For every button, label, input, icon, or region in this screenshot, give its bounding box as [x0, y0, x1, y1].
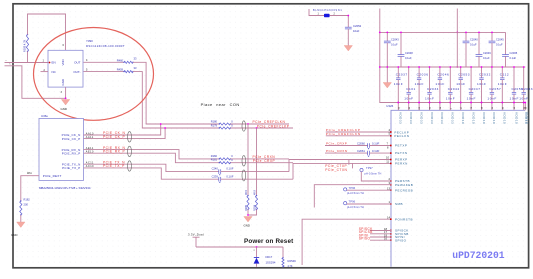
wire R459 down to CK_P node: [133, 72, 165, 128]
svg-text:SPISO: SPISO: [359, 237, 371, 241]
U326 power pin VDD column 14: [524, 102, 529, 125]
svg-text:PCIE_RX_P: PCIE_RX_P: [62, 151, 81, 155]
svg-text:C2053: C2053: [458, 73, 470, 77]
oscillator pin texts: [52, 59, 81, 85]
capacitor C2047 10nF: [467, 66, 481, 103]
svg-text:10nF: 10nF: [467, 97, 476, 101]
capacitor C2043 0.1uF: [384, 32, 399, 68]
resistor R184 49.9: [253, 190, 257, 211]
wire CTXN step to PERXP: [289, 160, 392, 172]
svg-text:3.3V_Dual: 3.3V_Dual: [188, 233, 204, 237]
svg-text:C2037: C2037: [396, 73, 408, 77]
net label PCIe_CRXP right: [326, 141, 347, 145]
svg-text:D017: D017: [266, 255, 273, 259]
svg-text:Y390: Y390: [86, 39, 93, 43]
capacitor C2049 0.1uF: [476, 32, 492, 68]
wire terminations join: [248, 210, 257, 216]
svg-text:Place near CON: Place near CON: [201, 102, 240, 107]
junction dot CREFCLKN termination: [247, 123, 249, 125]
svg-text:C2044: C2044: [448, 87, 460, 91]
wire C239 right: [221, 178, 293, 180]
diff pair marker CK: [128, 132, 132, 142]
svg-text:pH-0.5mm TH: pH-0.5mm TH: [347, 205, 364, 209]
U36u part number text: [39, 186, 91, 190]
svg-text:R185: R185: [245, 204, 248, 211]
svg-text:VDD: VDD: [61, 59, 65, 65]
net label SPISI: [359, 233, 369, 237]
svg-text:C2049: C2049: [483, 51, 491, 55]
ground symbol C2052: [344, 46, 352, 52]
net stub 2 to GND: [5, 63, 66, 99]
svg-text:U36u: U36u: [41, 114, 48, 118]
part name uPD720201: [452, 250, 505, 261]
capacitor C2046 10nF: [435, 66, 449, 103]
svg-text:10nF: 10nF: [510, 97, 519, 101]
wire CK_N node to R180: [161, 123, 220, 125]
svg-text:VDD10: VDD10: [503, 112, 507, 124]
capacitor C2059 10nF: [510, 66, 524, 103]
U36u pin names: [43, 133, 81, 178]
svg-text:SMB: SMB: [395, 202, 403, 206]
capacitor C2053 10nF: [456, 66, 470, 103]
svg-text:VDD10: VDD10: [492, 112, 496, 124]
svg-text:C2035: C2035: [510, 51, 518, 55]
wire ferrite input stub: [309, 9, 324, 16]
svg-text:VDD33: VDD33: [440, 112, 444, 124]
U326 power pin VDD column 2: [408, 102, 413, 125]
capacitor C239 0.1UF: [212, 174, 234, 183]
svg-text:10nF: 10nF: [487, 97, 496, 101]
svg-text:U326: U326: [386, 104, 393, 108]
svg-text:0.1uF: 0.1uF: [391, 42, 398, 46]
svg-text:PCIe_CREFCLKP: PCIe_CREFCLKP: [257, 124, 290, 128]
svg-text:PCIE_REXT: PCIE_REXT: [43, 174, 62, 178]
svg-text:GND: GND: [11, 233, 17, 237]
capacitor C2060 0.1UF series: [357, 141, 389, 149]
svg-text:10: 10: [386, 156, 389, 160]
wire PCIe_CREFCLKP to PECLKP: [326, 131, 392, 133]
svg-text:R184: R184: [253, 204, 256, 211]
net label PCIe_CRXP mid: [253, 159, 276, 163]
wire POR rail: [196, 246, 283, 248]
U326 power pin VDD column 9: [481, 102, 486, 125]
capacitor C2035 0.1uF: [502, 32, 518, 67]
ground symbol rail B: [383, 83, 391, 89]
net label PCIe_CREFCLKP mid: [257, 124, 290, 128]
svg-text:SPISO: SPISO: [395, 238, 407, 242]
IC U36u box: [39, 114, 84, 181]
IC U326 box outline: [386, 104, 525, 267]
wire CTXP step to PERXN: [293, 163, 392, 179]
svg-text:R162: R162: [24, 198, 31, 202]
wire R183 top to VDD: [28, 14, 66, 50]
EN pin red dot: [49, 62, 51, 64]
capacitor C2036 10nF: [415, 66, 429, 103]
svg-text:PCIE_TX_P: PCIE_TX_P: [62, 166, 80, 170]
power rail 3.3V_Dual: [188, 233, 204, 248]
wire PCIe_CRXP to C2060: [325, 145, 368, 147]
resistor R459 33: [117, 66, 137, 73]
svg-text:10nF: 10nF: [394, 82, 403, 86]
svg-text:DSC1124C08-100.0000T: DSC1124C08-100.0000T: [86, 44, 125, 48]
svg-text:10uF: 10uF: [353, 29, 360, 33]
diff pair marker CREFCLK: [242, 121, 246, 131]
oscillator pin numbers: [43, 44, 89, 94]
diff pair marker CTX: [242, 170, 246, 181]
net label PCIe_CTXP right: [325, 164, 347, 168]
svg-text:0.1uF: 0.1uF: [405, 56, 412, 60]
wire TP96 to PECREGB: [347, 189, 392, 191]
capacitor C2061 0.1UF series: [357, 147, 389, 157]
svg-text:VDD33: VDD33: [399, 112, 403, 124]
NC pin stub: [41, 71, 49, 73]
net label PCIE_TX_N: [103, 160, 125, 164]
wire CK_P node to R179: [165, 127, 219, 129]
U326 left pin numbers: [384, 128, 391, 241]
svg-text:PCIe_CRXP: PCIe_CRXP: [253, 159, 276, 163]
capacitor C2034 10nF: [425, 66, 439, 103]
svg-text:VDD33: VDD33: [409, 112, 413, 124]
svg-text:C2045: C2045: [496, 37, 504, 41]
svg-text:C2057: C2057: [489, 87, 501, 91]
svg-text:VDD10: VDD10: [471, 112, 475, 124]
svg-text:13: 13: [387, 186, 390, 190]
wire ferrite to C2052: [330, 16, 349, 28]
wire POR to R2549: [282, 247, 284, 258]
U326 power pin VDD column 10: [491, 102, 496, 125]
wire TP96 to SMB: [347, 203, 392, 205]
svg-text:VDD33: VDD33: [451, 112, 455, 124]
svg-text:14: 14: [387, 215, 390, 219]
svg-text:0.1UF: 0.1UF: [226, 167, 233, 171]
ferrite bead BLM41PG600SN1: [313, 9, 342, 17]
net label SPISCK: [359, 227, 373, 231]
junction GND node: [65, 97, 67, 99]
svg-text:49.9: 49.9: [245, 190, 248, 195]
svg-text:PONRSTB: PONRSTB: [395, 217, 413, 221]
net label PCIe_CRXN mid: [253, 155, 276, 159]
net label PCIe_CRXN right: [326, 149, 347, 153]
wire PCIE_CK_P pair: [84, 128, 166, 139]
svg-text:R181: R181: [211, 158, 218, 162]
U326 power pin VDD column 5: [439, 102, 444, 125]
svg-text:PERXN: PERXN: [395, 162, 408, 166]
svg-text:TP97: TP97: [366, 166, 373, 170]
capacitor C2044 10nF: [446, 66, 460, 103]
resistor R180 0: [211, 119, 233, 125]
svg-text:PECREGB: PECREGB: [395, 188, 413, 192]
svg-text:C2033: C2033: [521, 87, 533, 91]
junction dot rail right: [456, 32, 458, 68]
svg-text:R460: R460: [117, 58, 124, 62]
svg-text:4.7K: 4.7K: [288, 265, 293, 268]
svg-text:PECLKN: PECLKN: [394, 134, 409, 138]
svg-text:OUT: OUT: [74, 61, 81, 65]
svg-text:GND: GND: [61, 107, 67, 111]
junction dot CK_P: [164, 127, 166, 129]
resistor R185 49.9: [245, 190, 249, 211]
wire C240 right: [221, 171, 289, 173]
svg-text:PCIE_CK_P: PCIE_CK_P: [62, 137, 81, 141]
capacitor C2032 10nF: [477, 66, 491, 103]
wire TP97 to PERSTB: [361, 172, 391, 181]
svg-text:VDD10: VDD10: [514, 112, 518, 124]
svg-text:C239: C239: [212, 174, 219, 178]
svg-text:C2048: C2048: [405, 51, 413, 55]
title Power on Reset: [244, 238, 294, 245]
wire SPISI: [370, 236, 392, 238]
svg-text:0.1uF: 0.1uF: [510, 56, 517, 60]
svg-text:10nF: 10nF: [498, 82, 507, 86]
resistor R181 0: [211, 158, 233, 164]
U326 power pin VDD column 6: [449, 102, 454, 125]
junction dot CK_N: [160, 123, 162, 125]
svg-text:TP96: TP96: [349, 186, 356, 190]
svg-text:10nF: 10nF: [477, 82, 486, 86]
svg-text:C2034: C2034: [427, 87, 439, 91]
svg-text:PETXN: PETXN: [395, 151, 408, 155]
svg-text:C2052: C2052: [353, 24, 362, 28]
wire PCIE_TX_P pair: [84, 168, 219, 179]
junction dot CREFCLKP termination: [256, 127, 258, 129]
testpoint TP96 lower: [344, 200, 364, 209]
svg-text:R182: R182: [211, 154, 218, 158]
svg-text:TP96: TP96: [349, 200, 356, 204]
svg-text:R2549: R2549: [288, 259, 297, 263]
wire C2061 to PETXN: [370, 152, 392, 154]
svg-text:VDD10: VDD10: [482, 112, 486, 124]
svg-text:C2060: C2060: [357, 141, 365, 145]
oscillator Y390 box: [48, 50, 83, 87]
wire R460 down to CK_N node: [133, 62, 161, 124]
U326 power pin VDD column 1: [397, 102, 402, 125]
ground symbol R162: [11, 222, 25, 237]
note Place near CON: [201, 102, 240, 107]
wire R181 to pair marker: [230, 162, 293, 164]
net label PCIE_CK_N: [103, 131, 126, 135]
junction dot termination gnd: [247, 214, 249, 216]
net label PCIE_RX_P: [103, 149, 126, 153]
svg-text:VDD33: VDD33: [419, 112, 423, 124]
net label leader PCIe_CTXP: [348, 160, 350, 165]
wire PEWAKEB stub: [314, 185, 391, 208]
svg-text:W11: W11: [27, 172, 32, 175]
wire PCIe_CREFCLKN to PECLKN: [326, 135, 392, 137]
svg-text:VDD33: VDD33: [430, 112, 434, 124]
net stub EN left: [5, 59, 29, 63]
U326 power pin VDD column 11: [501, 102, 506, 125]
svg-text:C2040: C2040: [470, 37, 478, 41]
rail C horizontal: [388, 102, 526, 104]
svg-text:C2047: C2047: [469, 87, 481, 91]
svg-text:pH-0.5mm TH: pH-0.5mm TH: [347, 191, 364, 195]
resistor R179 0: [211, 123, 233, 129]
gnd drop rail B: [386, 66, 388, 82]
junction dot rail A left: [379, 32, 381, 34]
capacitor C101 10nF: [404, 66, 416, 103]
rail A horizontal: [380, 31, 506, 33]
wire SPISCK: [370, 230, 392, 232]
svg-text:C240: C240: [212, 167, 219, 171]
U326 power pin VDD column 7: [460, 102, 465, 125]
wire OUT- to R459: [84, 71, 125, 73]
resistor R182 0: [211, 154, 233, 160]
svg-text:pH-0.5mm TH: pH-0.5mm TH: [365, 172, 382, 176]
wire PCIE_CK_N pair: [84, 124, 161, 135]
net label PCIE_CK_P: [103, 135, 126, 139]
U36u pin numbers: [27, 132, 94, 175]
wire SPISO: [370, 239, 392, 241]
net label PCIe_CREFCLKN mid: [253, 120, 286, 124]
svg-text:Power on Reset: Power on Reset: [244, 238, 294, 245]
svg-text:C2046: C2046: [437, 73, 449, 77]
wire SPICSB: [370, 233, 392, 235]
svg-text:VDD10: VDD10: [461, 112, 465, 124]
wire PONRSTB net: [302, 219, 391, 265]
capacitor C2045 0.1uF: [489, 32, 505, 68]
svg-text:0.1uF: 0.1uF: [483, 56, 490, 60]
svg-text:R459: R459: [117, 68, 124, 72]
net label PCIe_CREFCLKN right: [326, 132, 361, 136]
wire OUT to R460: [84, 61, 125, 63]
capacitor C2037 10nF: [394, 66, 408, 103]
svg-text:OUT-: OUT-: [73, 70, 80, 74]
svg-text:R179: R179: [211, 124, 218, 128]
wire termination N down: [247, 124, 249, 196]
capacitor C2052 10uF: [345, 24, 362, 33]
svg-text:uPD720201: uPD720201: [452, 250, 505, 261]
svg-text:C112: C112: [500, 73, 509, 77]
svg-text:PETXP: PETXP: [395, 144, 407, 148]
wire C2052 to gnd: [347, 29, 349, 46]
svg-text:10nF: 10nF: [519, 97, 528, 101]
svg-text:PEWAKEB: PEWAKEB: [395, 183, 413, 187]
svg-text:C2032: C2032: [479, 73, 491, 77]
wire R182 to pair marker: [230, 158, 289, 160]
oscillator Y390 labels: [86, 39, 125, 48]
power rail right vertical: [456, 9, 458, 68]
U326 power pin VDD column 12: [513, 102, 518, 125]
ground symbol oscillator: [61, 100, 70, 111]
testpoint TP97: [360, 166, 381, 175]
resistor R162 200: [20, 198, 31, 223]
svg-text:C2043: C2043: [391, 37, 399, 41]
svg-text:10nF: 10nF: [446, 97, 455, 101]
svg-text:0.1UF: 0.1UF: [372, 141, 380, 145]
junction dot ferrite out: [347, 15, 349, 17]
U326 left pin dots: [390, 131, 392, 133]
svg-text:0.1UF: 0.1UF: [372, 149, 380, 153]
wire PCIE_REXT: [21, 176, 39, 201]
net label PCIE_RX_N: [103, 146, 126, 150]
capacitor C112 10nF: [498, 66, 509, 103]
net label SPISO: [359, 237, 371, 241]
power rail left vertical: [380, 9, 388, 103]
svg-text:GND: GND: [244, 224, 250, 228]
wire R179 to pair marker: [230, 127, 293, 129]
wire R180 to pair marker: [230, 123, 289, 125]
svg-text:PCIe_CTXN: PCIe_CTXN: [325, 168, 347, 172]
svg-text:BLM41PG600SN1: BLM41PG600SN1: [313, 9, 342, 12]
svg-text:0.1uF: 0.1uF: [496, 42, 503, 46]
U326 left pin names: [394, 130, 413, 242]
U326 power pin VDD column 13: [523, 102, 528, 125]
junction dot diode tap: [256, 246, 258, 248]
capacitor C2057 10nF: [487, 66, 501, 103]
rail B horizontal: [379, 66, 525, 68]
svg-text:0.1uF: 0.1uF: [470, 42, 477, 46]
svg-text:PCIE_TX_P: PCIE_TX_P: [103, 164, 125, 168]
oscillator GND pin wire: [65, 87, 67, 98]
svg-text:C2061: C2061: [357, 149, 365, 153]
svg-text:1SS294: 1SS294: [266, 261, 276, 265]
wire PCIe_CRXN to C2061: [325, 152, 368, 154]
diff pair marker CRX: [242, 156, 246, 166]
testpoint TP96 upper: [344, 186, 364, 195]
net label PCIE_TX_P: [103, 164, 125, 168]
svg-text:10nF: 10nF: [435, 82, 444, 86]
wire termination P down: [256, 128, 258, 196]
svg-text:10nF: 10nF: [404, 97, 413, 101]
net label leader PCIe_CTXN: [352, 163, 354, 168]
svg-text:10nF: 10nF: [456, 82, 465, 86]
svg-text:PCIe_CRXP: PCIe_CRXP: [326, 141, 347, 145]
svg-text:200: 200: [24, 203, 29, 207]
wire PCIE_RX_N pair: [84, 150, 220, 159]
wire PCIE_RX_P pair: [84, 153, 220, 163]
svg-text:0.1UF: 0.1UF: [226, 174, 233, 178]
net label PCIe_CTXN right: [325, 168, 347, 172]
wire R183 bottom to EN: [28, 52, 49, 63]
red ellipse highlight: [34, 28, 154, 121]
ground symbol terminations: [244, 217, 253, 228]
wire C2060 to PETXP: [370, 145, 392, 147]
svg-text:49.9: 49.9: [253, 190, 256, 195]
svg-text:PCIE_CK_P: PCIE_CK_P: [103, 135, 126, 139]
svg-text:10nF: 10nF: [415, 82, 424, 86]
svg-text:C2036: C2036: [417, 73, 429, 77]
wire PCIE_TX_N pair: [84, 164, 219, 171]
resistor R183 4.7K pull-up: [22, 34, 28, 52]
diff pair marker TX: [128, 161, 132, 171]
capacitor C240 0.1UF: [212, 167, 234, 176]
net label PCIe_CREFCLKP right: [326, 128, 361, 132]
U326 power pin VDD column 8: [470, 102, 475, 125]
svg-text:R183 4.7K: R183 4.7K: [22, 39, 26, 52]
capacitor C2040 0.1uF: [463, 32, 479, 68]
diff pair marker RX: [128, 146, 132, 156]
capacitor C2033 10nF: [519, 66, 533, 103]
svg-text:PCIE_RX_P: PCIE_RX_P: [103, 149, 126, 153]
svg-text:MBA25004-14W/2.0P+T728 + S32V2: MBA25004-14W/2.0P+T728 + S32V234: [39, 186, 91, 190]
svg-text:GND: GND: [61, 79, 65, 85]
diode D017 1SS294: [254, 247, 276, 267]
resistor R2549 4.7K: [282, 257, 296, 268]
U326 power pin VDD column 3: [418, 102, 423, 125]
resistor R460 33: [117, 57, 137, 64]
svg-text:C101: C101: [406, 87, 416, 91]
net label SPICSB: [359, 230, 373, 234]
svg-text:PCIe_CRXN: PCIe_CRXN: [326, 149, 347, 153]
svg-text:EN: EN: [52, 61, 56, 65]
U326 power pin VDD column 4: [429, 102, 434, 125]
capacitor C2048 0.1uF: [398, 32, 414, 68]
svg-text:R180: R180: [211, 120, 218, 124]
svg-text:PCIe_CREFCLKN: PCIe_CREFCLKN: [326, 132, 361, 136]
svg-text:VDD10: VDD10: [526, 112, 530, 124]
svg-text:10nF: 10nF: [425, 97, 434, 101]
